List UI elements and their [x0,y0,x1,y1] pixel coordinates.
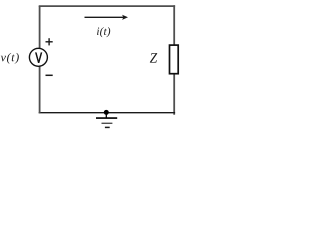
polarity minus [46,74,53,76]
label Z [150,53,157,62]
label i(t) [97,27,110,37]
ground bar 2 [102,122,113,124]
polarity plus [46,38,53,45]
ground bar 1 [96,117,117,119]
wire: bottom horizontal [39,112,175,114]
ground junction dot [104,110,109,115]
current arrow [85,15,129,20]
voltage source V1 circle [29,48,47,66]
ground stem [105,112,107,118]
ground bar 3 [105,126,110,128]
wire: right vertical [173,5,175,115]
wire: top horizontal [39,5,175,7]
impedance Z rectangle [170,45,179,74]
label v(t) [1,53,19,64]
voltage source V glyph [35,53,42,63]
wire: left vertical top segment [39,6,41,48]
wire: left vertical bottom segment [39,67,41,114]
